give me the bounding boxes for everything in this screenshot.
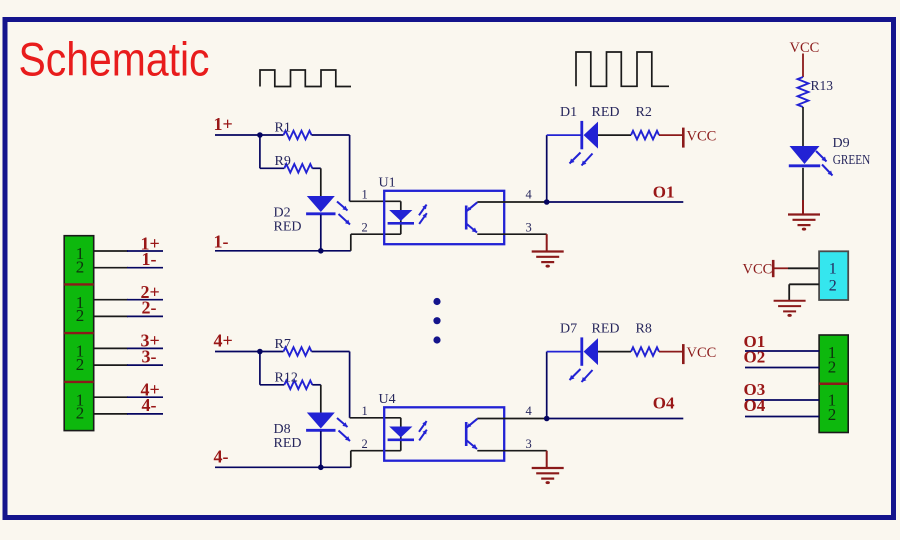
svg-text:R13: R13 — [811, 78, 834, 93]
svg-text:VCC: VCC — [687, 129, 717, 145]
svg-text:RED: RED — [274, 220, 302, 235]
svg-text:1: 1 — [362, 188, 368, 202]
svg-text:4-: 4- — [142, 395, 157, 415]
svg-text:2: 2 — [76, 404, 85, 423]
svg-text:VCC: VCC — [687, 345, 717, 361]
svg-text:U4: U4 — [379, 392, 396, 407]
svg-text:R12: R12 — [275, 371, 298, 386]
svg-text:Schematic: Schematic — [19, 33, 210, 86]
svg-text:GREEN: GREEN — [833, 152, 871, 167]
svg-text:RED: RED — [592, 105, 620, 120]
svg-text:4: 4 — [526, 188, 533, 202]
svg-text:O1: O1 — [653, 183, 675, 202]
svg-text:VCC: VCC — [743, 261, 773, 277]
svg-text:2: 2 — [829, 278, 837, 295]
svg-text:D2: D2 — [274, 206, 291, 221]
svg-text:O4: O4 — [744, 396, 766, 415]
svg-text:RED: RED — [592, 322, 620, 337]
svg-text:2: 2 — [76, 306, 85, 325]
svg-text:D8: D8 — [274, 422, 291, 437]
svg-text:1: 1 — [362, 404, 368, 418]
svg-text:1-: 1- — [142, 249, 157, 269]
svg-text:3-: 3- — [142, 346, 157, 366]
svg-text:D7: D7 — [560, 322, 577, 337]
svg-text:1+: 1+ — [214, 114, 233, 134]
svg-text:R8: R8 — [636, 322, 652, 337]
svg-text:2: 2 — [76, 257, 85, 276]
svg-text:4+: 4+ — [214, 331, 233, 351]
svg-text:2: 2 — [828, 357, 837, 376]
svg-text:3: 3 — [526, 221, 532, 235]
svg-text:D1: D1 — [560, 105, 577, 120]
svg-text:2: 2 — [828, 405, 837, 424]
svg-text:1-: 1- — [214, 231, 229, 251]
svg-text:4-: 4- — [214, 446, 229, 466]
svg-text:RED: RED — [274, 436, 302, 451]
svg-text:R2: R2 — [636, 105, 652, 120]
svg-text:R1: R1 — [275, 121, 291, 136]
svg-text:O2: O2 — [744, 348, 766, 367]
svg-text:4: 4 — [526, 404, 533, 418]
svg-text:2-: 2- — [142, 298, 157, 318]
svg-text:2: 2 — [76, 355, 85, 374]
svg-text:VCC: VCC — [790, 40, 820, 56]
svg-text:2: 2 — [362, 221, 368, 235]
svg-text:3: 3 — [526, 437, 532, 451]
svg-text:U1: U1 — [379, 176, 396, 191]
svg-text:2: 2 — [362, 437, 368, 451]
svg-text:R7: R7 — [275, 337, 291, 352]
svg-text:O4: O4 — [653, 393, 675, 412]
svg-text:1: 1 — [829, 260, 837, 277]
svg-text:D9: D9 — [833, 136, 850, 151]
svg-text:R9: R9 — [275, 154, 291, 169]
